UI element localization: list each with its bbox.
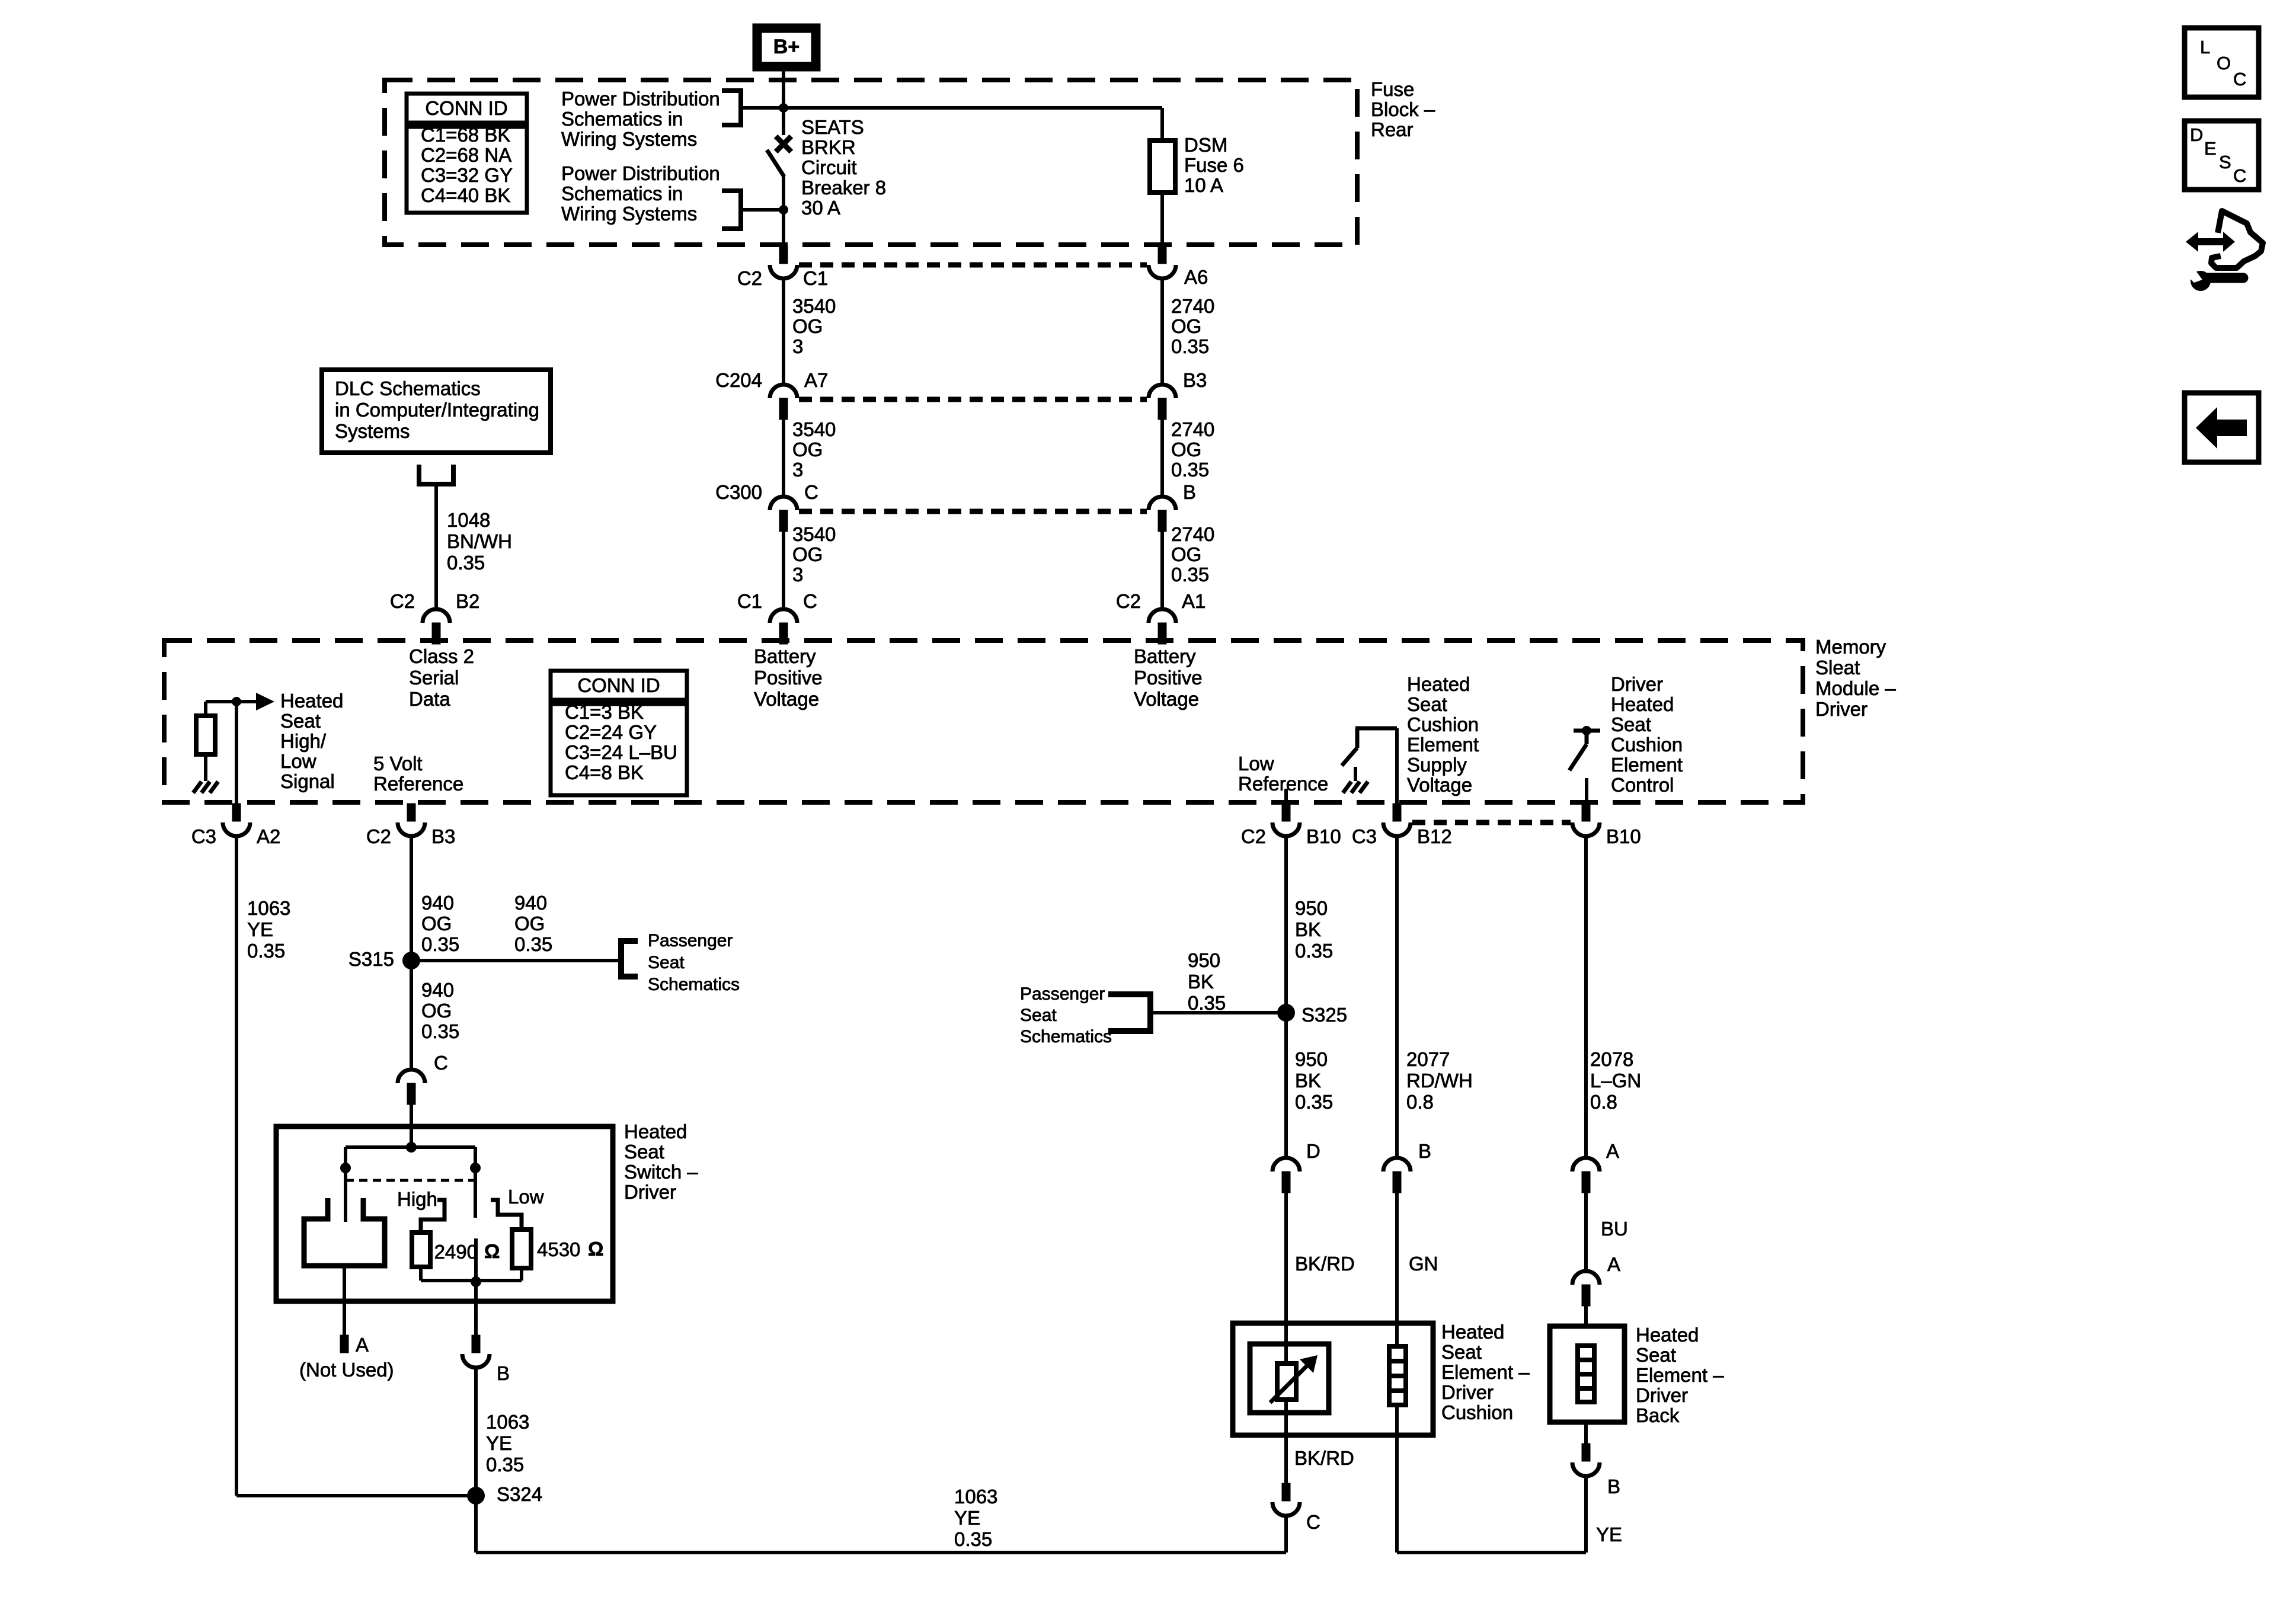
DLC Schematics reference box bbox=[322, 370, 551, 453]
svg-text:(Not Used): (Not Used) bbox=[299, 1359, 394, 1381]
low-position fixed contact + 4530 ohm resistor bbox=[491, 1200, 522, 1231]
module internal: heated seat cushion element supply switch bbox=[1395, 728, 1399, 804]
svg-text:C2: C2 bbox=[1241, 825, 1266, 847]
wire up to connector C bbox=[1284, 1515, 1288, 1553]
splice S324 bbox=[467, 1487, 485, 1505]
connector B below switch bbox=[472, 1335, 480, 1353]
svg-text:950BK0.35: 950BK0.35 bbox=[1295, 1048, 1333, 1113]
switch common bus bbox=[346, 1145, 475, 1149]
connector C below cushion element bbox=[1282, 1483, 1290, 1501]
svg-text:940OG0.35: 940OG0.35 bbox=[421, 979, 459, 1042]
wire 940 OG from B3 down bbox=[410, 836, 413, 1070]
svg-text:A: A bbox=[1606, 1140, 1619, 1162]
bracket below DLC box bbox=[419, 465, 453, 484]
wire 1063 YE bottom run bbox=[476, 1551, 1286, 1554]
svg-text:BU: BU bbox=[1601, 1218, 1628, 1240]
wire 950 BK from B10 down bbox=[1284, 836, 1288, 1158]
svg-text:HeatedSeatElement –DriverCushi: HeatedSeatElement –DriverCushion bbox=[1441, 1321, 1530, 1423]
svg-text:SEATSBRKRCircuitBreaker 830 A: SEATSBRKRCircuitBreaker 830 A bbox=[801, 116, 886, 219]
junction pole 2 bbox=[470, 1163, 481, 1173]
svg-text:GN: GN bbox=[1409, 1253, 1438, 1275]
svg-text:L: L bbox=[2200, 37, 2210, 57]
wire GN into cushion element bbox=[1395, 1193, 1399, 1435]
junction resistor rail bbox=[471, 1276, 481, 1287]
icon LOC box bbox=[2185, 28, 2259, 97]
icon vehicle outline with double arrow and wrench bbox=[2186, 232, 2235, 252]
svg-text:HeatedSeatHigh/LowSignal: HeatedSeatHigh/LowSignal bbox=[280, 690, 343, 792]
wire below back element bbox=[1584, 1422, 1588, 1443]
svg-text:1063YE0.35: 1063YE0.35 bbox=[247, 897, 290, 962]
connector C3/A2 at module bottom bbox=[232, 804, 241, 821]
svg-text:LowReference: LowReference bbox=[1238, 753, 1328, 795]
temperature sensor inner box bbox=[1250, 1344, 1329, 1413]
connector C2/B3 at module bottom bbox=[407, 804, 415, 821]
wire resistor to ground bbox=[204, 754, 207, 781]
switch pole 1 bbox=[344, 1147, 347, 1222]
svg-text:B: B bbox=[1183, 481, 1196, 503]
Heated Seat Element - Driver Back box bbox=[1550, 1326, 1625, 1422]
svg-text:PassengerSeatSchematics: PassengerSeatSchematics bbox=[648, 931, 740, 994]
svg-text:B: B bbox=[1607, 1475, 1620, 1497]
CONN ID table (module) bbox=[551, 671, 687, 700]
svg-text:2740OG0.35: 2740OG0.35 bbox=[1171, 523, 1214, 585]
svg-text:BatteryPositiveVoltage: BatteryPositiveVoltage bbox=[754, 645, 823, 710]
svg-text:B3: B3 bbox=[431, 825, 455, 847]
connector B bbox=[1149, 497, 1176, 510]
svg-text:HeatedSeatCushionElementSupply: HeatedSeatCushionElementSupplyVoltage bbox=[1407, 673, 1479, 796]
svg-text:CONN ID: CONN ID bbox=[577, 674, 660, 696]
wire S324 down bbox=[474, 1496, 478, 1553]
svg-text:YE: YE bbox=[1596, 1523, 1622, 1545]
connector C2/B10 at module bottom bbox=[1282, 804, 1290, 821]
wire S325 branch to passenger seat bbox=[1150, 1011, 1286, 1014]
connector C2/A1 at module bbox=[1149, 609, 1176, 623]
svg-text:950BK0.35: 950BK0.35 bbox=[1188, 949, 1226, 1014]
connector C300/C bbox=[770, 497, 797, 510]
Heated Seat Switch - Driver box bbox=[276, 1126, 613, 1301]
svg-text:C2: C2 bbox=[737, 267, 762, 289]
wrench bbox=[2191, 271, 2211, 291]
variable resistor arrowhead bbox=[1300, 1355, 1318, 1373]
svg-text:B: B bbox=[497, 1362, 510, 1384]
svg-text:940OG0.35: 940OG0.35 bbox=[514, 892, 552, 955]
wire B+ down into fuse block bbox=[782, 71, 785, 106]
in-line connector dotted link C-B bbox=[799, 509, 1147, 514]
svg-text:A1: A1 bbox=[1182, 590, 1205, 612]
switch pole 2 bbox=[474, 1147, 477, 1218]
splice S315 bbox=[402, 952, 420, 969]
connector C above switch bbox=[398, 1070, 425, 1083]
svg-text:2740OG0.35: 2740OG0.35 bbox=[1171, 295, 1214, 357]
svg-text:FuseBlock –Rear: FuseBlock –Rear bbox=[1371, 78, 1435, 140]
ground stub bbox=[1354, 767, 1357, 781]
svg-text:B12: B12 bbox=[1417, 825, 1452, 847]
module internal: driver heated seat cushion element control switch bbox=[1574, 729, 1600, 733]
svg-text:C1=3 BKC2=24 GYC3=24 L–BUC4=8: C1=3 BKC2=24 GYC3=24 L–BUC4=8 BK bbox=[565, 701, 677, 783]
wire control to B10 pin bbox=[1585, 778, 1588, 804]
in-line connector dotted link A7-B3 bbox=[799, 397, 1147, 402]
wire into switch box bbox=[410, 1105, 413, 1126]
svg-text:Power DistributionSchematics i: Power DistributionSchematics inWiring Sy… bbox=[561, 162, 720, 225]
svg-text:D: D bbox=[2190, 124, 2203, 145]
off-page bracket from passenger seat schematics bbox=[1108, 994, 1150, 1031]
wire BK/RD to cushion sensor bbox=[1284, 1193, 1288, 1483]
svg-text:MemorySleatModule –Driver: MemorySleatModule –Driver bbox=[1815, 636, 1896, 720]
connector A (upper) bbox=[1572, 1158, 1600, 1172]
svg-text:B10: B10 bbox=[1606, 825, 1641, 847]
svg-text:C204: C204 bbox=[715, 369, 762, 391]
off-page bracket (power distribution bottom) bbox=[722, 191, 741, 229]
svg-text:A6: A6 bbox=[1184, 266, 1208, 288]
svg-text:Low: Low bbox=[508, 1186, 544, 1208]
svg-text:1048BN/WH0.35: 1048BN/WH0.35 bbox=[447, 509, 512, 574]
arrow heated seat high/low signal bbox=[256, 693, 274, 710]
switch blade (supply) bbox=[1342, 748, 1357, 766]
svg-text:High: High bbox=[397, 1188, 437, 1210]
terminal A (not used) bbox=[340, 1335, 348, 1353]
icon back-arrow box bbox=[2185, 393, 2259, 462]
connector A6 (fuse block to harness) bbox=[1158, 246, 1166, 264]
connector B bbox=[1383, 1158, 1411, 1172]
variable resistor arrow shaft bbox=[1270, 1363, 1310, 1403]
svg-text:DriverHeatedSeatCushionElement: DriverHeatedSeatCushionElementControl bbox=[1611, 673, 1683, 796]
wire 1063 YE from switch B bbox=[474, 1368, 478, 1496]
svg-text:HeatedSeatSwitch –Driver: HeatedSeatSwitch –Driver bbox=[624, 1121, 698, 1203]
wire 2740 OG segment 3 bbox=[1160, 532, 1164, 610]
connector B below back element bbox=[1582, 1443, 1590, 1461]
circuit breaker 8 (SEATS BRKR) bbox=[782, 108, 785, 135]
wire element return bottom run bbox=[1397, 1551, 1586, 1554]
fuse DSM Fuse 6 10A bbox=[1160, 108, 1164, 142]
svg-text:C3: C3 bbox=[1352, 825, 1377, 847]
junction at B+ feed bbox=[779, 103, 788, 113]
svg-text:DSMFuse 610 A: DSMFuse 610 A bbox=[1184, 134, 1244, 196]
svg-text:C1: C1 bbox=[803, 267, 828, 289]
svg-text:950BK0.35: 950BK0.35 bbox=[1295, 897, 1333, 962]
in-line connector dotted link B12-B10 bbox=[1412, 820, 1571, 825]
svg-text:1063YE0.35: 1063YE0.35 bbox=[954, 1486, 997, 1550]
connector D bbox=[1272, 1158, 1300, 1172]
svg-text:A2: A2 bbox=[257, 825, 280, 847]
wire rail to pin B bbox=[474, 1282, 478, 1335]
svg-text:S: S bbox=[2219, 152, 2231, 172]
svg-text:BatteryPositiveVoltage: BatteryPositiveVoltage bbox=[1134, 645, 1203, 710]
svg-text:2490: 2490 bbox=[434, 1241, 478, 1263]
wire 2740 OG segment 1 bbox=[1160, 278, 1164, 385]
svg-text:A7: A7 bbox=[804, 369, 828, 391]
svg-text:C: C bbox=[803, 590, 817, 612]
wire 3540 OG segment 2 bbox=[782, 420, 785, 497]
svg-text:O: O bbox=[2217, 53, 2231, 73]
svg-text:S324: S324 bbox=[497, 1483, 542, 1505]
wire into back element bbox=[1584, 1306, 1588, 1326]
svg-text:3540OG3: 3540OG3 bbox=[792, 295, 836, 357]
off-page bracket (power distribution top) bbox=[722, 91, 741, 125]
off-page bracket to passenger seat schematics bbox=[621, 941, 638, 977]
svg-text:4530: 4530 bbox=[537, 1238, 580, 1260]
svg-text:CONN ID: CONN ID bbox=[425, 97, 507, 119]
svg-text:C: C bbox=[2233, 69, 2246, 89]
svg-text:S325: S325 bbox=[1302, 1004, 1347, 1026]
svg-text:B2: B2 bbox=[456, 590, 479, 612]
wire bucket to pin A bbox=[343, 1266, 346, 1336]
svg-text:940OG0.35: 940OG0.35 bbox=[421, 892, 459, 955]
wire 3540 OG segment 1 bbox=[782, 278, 785, 385]
svg-text:DLC Schematicsin Computer/Inte: DLC Schematicsin Computer/IntegratingSys… bbox=[335, 377, 539, 442]
junction below breaker bbox=[779, 205, 788, 215]
svg-text:E: E bbox=[2204, 138, 2217, 159]
splice S325 bbox=[1277, 1004, 1295, 1022]
wire to A2 pin bbox=[235, 702, 238, 804]
switch pole 2 fixed contact bbox=[474, 1238, 478, 1281]
wire BU segment bbox=[1584, 1193, 1588, 1272]
svg-text:1063YE0.35: 1063YE0.35 bbox=[486, 1411, 529, 1475]
svg-text:A: A bbox=[1607, 1253, 1620, 1275]
junction pole 1 bbox=[340, 1163, 351, 1173]
icon DESC box bbox=[2185, 121, 2259, 190]
mechanical link (ganged poles) bbox=[346, 1179, 475, 1182]
ground (module internal, left) bbox=[193, 782, 202, 793]
wire 2740 OG segment 2 bbox=[1160, 420, 1164, 497]
wire bracket to junction bbox=[743, 106, 781, 110]
svg-text:S315: S315 bbox=[348, 948, 394, 970]
resistor output rail bbox=[421, 1279, 522, 1282]
svg-text:C3: C3 bbox=[191, 825, 216, 847]
connector C3/B12 at module bottom bbox=[1393, 804, 1401, 821]
svg-text:2077RD/WH0.8: 2077RD/WH0.8 bbox=[1406, 1048, 1473, 1113]
fuse block dashed box (Fuse Block - Rear) bbox=[385, 80, 1357, 245]
svg-text:5 VoltReference: 5 VoltReference bbox=[373, 753, 463, 795]
wire 2077 RD/WH down bbox=[1395, 836, 1399, 1158]
svg-text:2740OG0.35: 2740OG0.35 bbox=[1171, 418, 1214, 481]
svg-text:B3: B3 bbox=[1183, 369, 1207, 391]
variable resistor (sensor) bbox=[1277, 1363, 1296, 1400]
ground (module internal, right) bbox=[1343, 782, 1351, 793]
connector C204/A7 bbox=[770, 385, 797, 398]
wire BK/RD below cushion box bbox=[1284, 1435, 1288, 1483]
svg-text:Class 2SerialData: Class 2SerialData bbox=[409, 645, 474, 710]
B+ battery feed symbol bbox=[753, 24, 820, 71]
svg-text:C: C bbox=[434, 1052, 448, 1074]
svg-text:C300: C300 bbox=[715, 481, 762, 503]
wire 1063 YE to S324 bbox=[236, 1494, 476, 1497]
svg-text:B: B bbox=[1418, 1140, 1431, 1162]
Heated Seat Element - Driver Cushion box bbox=[1233, 1323, 1433, 1435]
Memory Seat Module dashed box bbox=[164, 641, 1803, 802]
connector A (lower) bbox=[1572, 1271, 1600, 1285]
wire bracket to breaker bbox=[742, 208, 781, 212]
connector B10 at module bottom bbox=[1582, 804, 1590, 821]
junction at signal node bbox=[232, 697, 241, 706]
svg-text:Ω: Ω bbox=[484, 1240, 500, 1262]
wire into switch common bbox=[410, 1126, 413, 1147]
svg-text:C: C bbox=[2233, 165, 2246, 186]
wire low reference stub bbox=[1284, 789, 1288, 804]
wire 1063 YE from A2 down bbox=[235, 836, 238, 1496]
svg-text:BK/RD: BK/RD bbox=[1295, 1253, 1355, 1275]
svg-text:HeatedSeatElement –DriverBack: HeatedSeatElement –DriverBack bbox=[1636, 1324, 1724, 1426]
svg-text:B10: B10 bbox=[1306, 825, 1341, 847]
svg-text:Power DistributionSchematics i: Power DistributionSchematics inWiring Sy… bbox=[561, 88, 720, 150]
junction switch common bbox=[406, 1142, 417, 1153]
wire to pullup resistor bbox=[204, 702, 207, 717]
svg-text:C: C bbox=[1306, 1511, 1320, 1533]
switch output contact (bucket) to pin A bbox=[304, 1198, 385, 1266]
svg-text:3540OG3: 3540OG3 bbox=[792, 418, 836, 481]
svg-text:Ω: Ω bbox=[588, 1238, 603, 1260]
svg-text:A: A bbox=[356, 1334, 369, 1356]
svg-text:BK/RD: BK/RD bbox=[1294, 1447, 1354, 1469]
resistor (pull-up) in module bbox=[196, 716, 215, 754]
junction on control switch bar bbox=[1582, 726, 1591, 735]
svg-text:D: D bbox=[1306, 1140, 1320, 1162]
svg-text:3540OG3: 3540OG3 bbox=[792, 523, 836, 585]
wire YE up to connector B bbox=[1584, 1475, 1588, 1553]
wire 3540 OG segment 3 bbox=[782, 532, 785, 610]
heating element (cushion) bbox=[1389, 1346, 1406, 1405]
wire 1048 BN/WH bbox=[434, 484, 438, 610]
high-position fixed contact + 2490 ohm resistor bbox=[421, 1200, 445, 1234]
connector C1/C at module bbox=[770, 609, 797, 623]
wire feed to DSM fuse bbox=[784, 106, 1162, 110]
wire 2078 L-GN down bbox=[1584, 836, 1588, 1158]
svg-text:C2: C2 bbox=[366, 825, 391, 847]
wire element return down bbox=[1395, 1435, 1399, 1553]
svg-text:C1: C1 bbox=[737, 590, 762, 612]
svg-text:C2: C2 bbox=[390, 590, 415, 612]
in-line connector dotted link C1-A6 bbox=[799, 263, 1147, 268]
CONN ID table (fuse block) bbox=[407, 94, 527, 123]
svg-text:2078L–GN0.8: 2078L–GN0.8 bbox=[1590, 1048, 1641, 1113]
connector C2/C1 (fuse block to harness) bbox=[779, 246, 788, 264]
connector C2/B2 at module bbox=[423, 609, 450, 623]
svg-text:PassengerSeatSchematics: PassengerSeatSchematics bbox=[1020, 984, 1112, 1046]
connector B3 bbox=[1149, 385, 1176, 398]
heating element (back) bbox=[1578, 1346, 1594, 1402]
svg-text:C: C bbox=[804, 481, 818, 503]
svg-text:C2: C2 bbox=[1116, 590, 1141, 612]
wire S315 branch to passenger seat bbox=[411, 959, 621, 962]
switch blade (control) bbox=[1569, 744, 1587, 770]
svg-text:C1=68 BKC2=68 NAC3=32 GYC4=40: C1=68 BKC2=68 NAC3=32 GYC4=40 BK bbox=[421, 124, 513, 206]
wire to arrow bbox=[206, 700, 257, 703]
svg-text:B+: B+ bbox=[773, 36, 800, 58]
